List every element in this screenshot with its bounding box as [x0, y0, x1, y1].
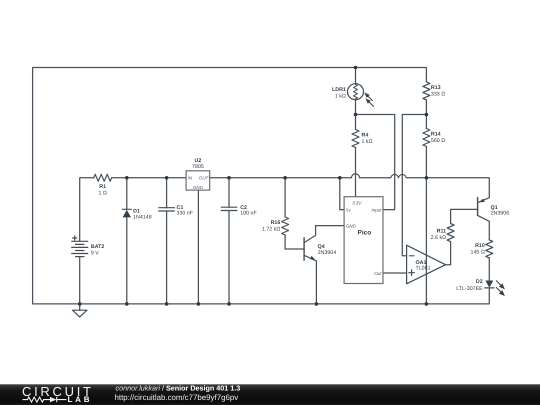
svg-text:3.3V: 3.3V [352, 201, 362, 206]
svg-text:CIRCUIT: CIRCUIT [22, 384, 93, 399]
svg-text:1N4148: 1N4148 [133, 214, 152, 220]
svg-text:100 nF: 100 nF [240, 211, 257, 217]
svg-text:9 V: 9 V [91, 251, 99, 257]
svg-text:connor.lukkari / Senior Design: connor.lukkari / Senior Design 401 1.3 [116, 383, 241, 392]
svg-text:R16: R16 [271, 220, 281, 226]
svg-text:Pico: Pico [358, 229, 372, 236]
svg-text:333 Ω: 333 Ω [431, 92, 445, 98]
svg-text:TL081: TL081 [416, 265, 431, 271]
svg-text:145 Ω: 145 Ω [471, 250, 485, 256]
svg-text:1 kΩ: 1 kΩ [335, 94, 346, 100]
svg-text:330 nF: 330 nF [177, 211, 194, 217]
svg-text:Input: Input [372, 207, 383, 212]
svg-text:GND: GND [193, 185, 204, 190]
svg-text:Out: Out [374, 271, 382, 276]
svg-text:R1: R1 [99, 184, 106, 190]
svg-text:R14: R14 [431, 132, 441, 138]
svg-text:2N3906: 2N3906 [491, 211, 510, 217]
svg-text:1 Ω: 1 Ω [99, 191, 107, 197]
svg-text:LAB: LAB [68, 395, 91, 404]
svg-text:R13: R13 [431, 85, 441, 91]
svg-text:D2: D2 [476, 279, 483, 285]
svg-text:R4: R4 [362, 133, 369, 139]
svg-text:2.6 kΩ: 2.6 kΩ [431, 235, 446, 241]
svg-text:1.72 kΩ: 1.72 kΩ [262, 227, 280, 233]
svg-text:560 Ω: 560 Ω [431, 138, 445, 144]
svg-text:1 kΩ: 1 kΩ [362, 139, 373, 145]
svg-text:R11: R11 [437, 229, 446, 235]
svg-text:LDR1: LDR1 [332, 87, 346, 93]
svg-text:7805: 7805 [192, 164, 204, 170]
svg-text:5v: 5v [346, 207, 351, 212]
svg-text:LTL-307EE: LTL-307EE [456, 286, 483, 292]
svg-text:2N3904: 2N3904 [318, 250, 337, 256]
svg-text:OUT: OUT [199, 175, 209, 180]
svg-text:GND: GND [346, 223, 357, 228]
svg-text:http://circuitlab.com/c77be9yf: http://circuitlab.com/c77be9yf7g6pv [115, 393, 239, 402]
svg-text:R10: R10 [475, 243, 485, 249]
svg-text:BAT2: BAT2 [91, 244, 104, 250]
